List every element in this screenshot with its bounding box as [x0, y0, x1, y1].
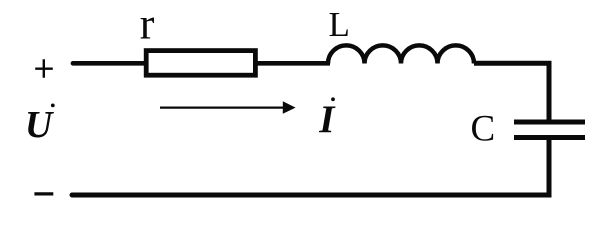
current arrow head [283, 101, 296, 114]
svg-text:C: C [471, 108, 496, 149]
current arrow [160, 106, 284, 108]
capacitor C top plate [514, 120, 585, 125]
svg-text:I: I [318, 98, 336, 141]
inductor L [328, 45, 474, 63]
dot over U [51, 104, 55, 108]
svg-text:L: L [329, 5, 350, 44]
wire inductor to top-right corner [474, 63, 549, 122]
svg-text:U: U [25, 104, 55, 146]
resistor r [146, 51, 255, 76]
wire resistor to inductor [254, 61, 330, 66]
capacitor C bottom plate [514, 135, 585, 140]
dot over I [331, 97, 335, 101]
wire top-left terminal [73, 61, 148, 66]
minus terminal sign [34, 192, 53, 195]
plus terminal sign [35, 59, 53, 78]
wire capacitor down to bottom-right corner and bottom return wire [72, 138, 549, 196]
svg-text:r: r [140, 0, 155, 49]
